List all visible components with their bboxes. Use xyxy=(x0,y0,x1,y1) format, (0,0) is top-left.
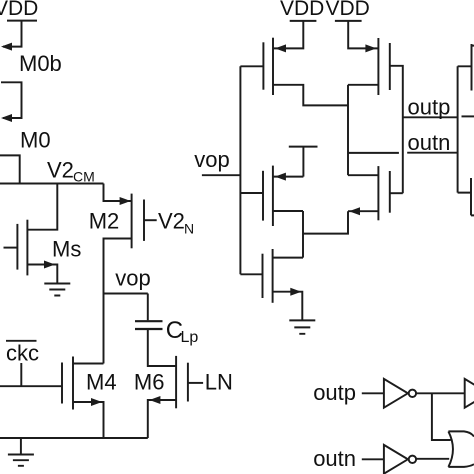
transistor M0b label xyxy=(19,51,62,76)
svg-text:vop: vop xyxy=(194,147,229,172)
node outp label xyxy=(408,95,451,120)
right PMOS source arrow xyxy=(365,44,376,52)
svg-text:V2: V2 xyxy=(158,209,185,234)
transistor M6 gate bar xyxy=(187,363,189,402)
center vertical node wire xyxy=(347,85,349,175)
node vop label (left circuit) xyxy=(115,266,150,291)
svg-text:outn: outn xyxy=(408,130,451,155)
left middle PMOS gate bar xyxy=(262,171,264,221)
transistor M0 source arrow xyxy=(1,114,12,122)
right middle NMOS gate bar xyxy=(389,171,391,213)
mid right edge wire stub xyxy=(462,115,474,117)
ground under Ms xyxy=(44,284,70,296)
transistor M6 channel bar xyxy=(175,356,177,408)
wire outn to inverter U3 xyxy=(362,458,384,460)
bottom NMOS gate wire xyxy=(240,273,262,275)
left middle PMOS channel bar xyxy=(272,166,274,226)
node V2CM label xyxy=(47,158,95,185)
bottom NMOS drain wire xyxy=(273,257,303,259)
bottom right edge transistor fragment xyxy=(458,178,474,215)
left middle PMOS source arrow xyxy=(275,173,286,181)
transistor M6 gate stub xyxy=(188,382,203,384)
VDD label 2 (right circuit) xyxy=(326,0,370,20)
svg-text:vop: vop xyxy=(115,266,150,291)
right middle NMOS source wire xyxy=(348,210,378,212)
bottom NMOS source arrow xyxy=(290,288,301,296)
svg-text:M0: M0 xyxy=(20,128,51,153)
svg-text:M6: M6 xyxy=(134,370,165,395)
transistor M4 gate bar xyxy=(61,363,63,404)
node V2CM wire xyxy=(0,183,104,185)
node ckc label with overline xyxy=(6,341,39,366)
transistor M2 label xyxy=(89,209,120,234)
right edge vertical wire xyxy=(457,66,459,192)
inverter U1 triangle xyxy=(384,379,408,408)
node outn label xyxy=(408,130,451,155)
left PMOS gate bar xyxy=(262,42,264,89)
transistor Ms gate stub xyxy=(4,247,18,249)
transistor M6 label xyxy=(134,370,165,395)
node vop wire xyxy=(104,293,148,295)
wire M0 drain to node V2CM xyxy=(0,155,20,183)
transistor M4 channel bar xyxy=(72,357,74,410)
svg-text:VDD: VDD xyxy=(280,0,324,20)
left middle PMOS gate stub xyxy=(240,192,263,194)
wire ckc to M4 gate xyxy=(20,363,22,386)
transistor M0 label xyxy=(20,128,51,153)
VDD rail 1 xyxy=(290,20,317,22)
node LN label xyxy=(205,370,233,395)
wire M0b drain to M0 source xyxy=(1,82,22,118)
transistor Ms gate bar xyxy=(16,224,18,270)
svg-text:M0b: M0b xyxy=(19,51,62,76)
transistor M4 source wire xyxy=(73,402,104,438)
transistor M2 gate bar xyxy=(143,200,145,241)
left PMOS drain jog wire xyxy=(273,85,348,106)
transistor M4 gate wire xyxy=(0,385,62,387)
middle node vertical wire xyxy=(302,211,304,258)
svg-text:VDD: VDD xyxy=(326,0,370,20)
wire VDD2 to right PMOS source xyxy=(348,21,378,49)
wire U1 output branch to OR gate xyxy=(432,393,451,440)
wire CLp to M6 drain xyxy=(148,329,176,366)
node outn wire xyxy=(348,152,458,154)
bottom rail (left circuit) xyxy=(0,437,148,439)
wire vop to M4 drain xyxy=(103,294,105,364)
top right edge transistor fragment xyxy=(458,44,474,91)
VDD rail (left circuit) xyxy=(7,20,37,22)
svg-text:outp: outp xyxy=(408,95,451,120)
transistor M2 drain wire to vop xyxy=(104,239,132,294)
transistor M4 drain wire xyxy=(73,363,104,365)
svg-text:Ms: Ms xyxy=(52,237,81,262)
transistor M4 source arrow xyxy=(91,398,102,406)
svg-text:M2: M2 xyxy=(89,209,120,234)
svg-text:CM: CM xyxy=(73,168,95,184)
transistor Ms label xyxy=(52,237,81,262)
bottom NMOS source wire xyxy=(273,292,303,320)
VDD label 1 (right circuit) xyxy=(280,0,324,20)
transistor M4 label xyxy=(86,370,117,395)
transistor Ms channel bar xyxy=(26,220,28,276)
capacitor CLp plates xyxy=(135,321,163,329)
transistor M6 source arrow xyxy=(149,396,160,404)
node outp wire xyxy=(403,116,458,118)
wire U3 output to OR gate xyxy=(416,458,449,460)
inverter U1 bubble xyxy=(409,390,416,397)
T bar node above left middle PMOS xyxy=(289,147,318,177)
right PMOS gate bar xyxy=(389,43,391,90)
bottom NMOS gate bar xyxy=(262,254,264,298)
svg-text:M4: M4 xyxy=(86,370,117,395)
VDD label (left circuit) xyxy=(0,0,38,20)
left PMOS channel bar xyxy=(272,38,274,95)
svg-text:outn: outn xyxy=(313,446,356,471)
wire V2CM to Ms drain xyxy=(27,184,57,230)
transistor Ms source arrow xyxy=(44,261,55,269)
wire vop to capacitor CLp xyxy=(147,294,149,321)
VDD rail 2 xyxy=(335,20,362,22)
node outp label (logic block) xyxy=(313,380,356,405)
transistor Ms source wire xyxy=(27,265,57,284)
node outn label (logic block) xyxy=(313,446,356,471)
right middle NMOS channel bar xyxy=(377,166,379,220)
wire VDD1 to left PMOS source xyxy=(273,21,303,49)
svg-text:ckc: ckc xyxy=(6,341,39,366)
svg-text:VDD: VDD xyxy=(0,0,38,20)
middle node tee wire xyxy=(303,211,348,233)
left PMOS gate stub xyxy=(240,65,263,67)
svg-text:outp: outp xyxy=(313,380,356,405)
right middle NMOS source arrow xyxy=(349,207,360,215)
ground under bottom NMOS xyxy=(289,320,315,333)
svg-text:V2: V2 xyxy=(47,158,74,183)
capacitor CLp label xyxy=(166,317,199,346)
wire V2CM to M2 source xyxy=(104,184,132,202)
transistor M2 source arrow xyxy=(120,197,131,205)
wire U1 output to inverter U2 xyxy=(416,392,465,394)
ground under bottom rail xyxy=(8,438,34,466)
right PMOS channel bar xyxy=(377,38,379,95)
right PMOS drain wire xyxy=(348,84,378,86)
inverter U3 triangle xyxy=(384,445,408,474)
node vop input wire xyxy=(202,174,241,176)
transistor M2 gate stub xyxy=(144,219,157,221)
inverter U3 bubble xyxy=(409,456,416,463)
svg-text:N: N xyxy=(184,221,194,237)
node vop long vertical wire xyxy=(239,66,241,274)
wire outp to inverter U1 xyxy=(362,392,384,394)
left PMOS source arrow xyxy=(275,44,286,52)
node V2N label xyxy=(158,209,194,237)
transistor M2 channel bar xyxy=(131,194,133,249)
wire VDD to M0b source xyxy=(3,21,22,47)
right middle NMOS drain wire xyxy=(348,174,378,176)
svg-text:LN: LN xyxy=(205,370,233,395)
inverter U2 triangle (cut at edge) xyxy=(465,379,474,408)
transistor M6 source wire xyxy=(148,400,176,438)
right PMOS gate stub and vertical to outp xyxy=(390,66,403,193)
bottom NMOS channel bar xyxy=(272,249,274,303)
left middle PMOS source wire xyxy=(273,176,304,178)
node vop label (right circuit) xyxy=(194,147,229,172)
right middle NMOS gate stub xyxy=(390,192,403,194)
transistor M0b source arrow xyxy=(1,43,12,51)
OR gate U4 (cut at edge) xyxy=(448,431,474,467)
left middle PMOS drain wire xyxy=(273,210,303,212)
svg-text:Lp: Lp xyxy=(181,329,199,346)
